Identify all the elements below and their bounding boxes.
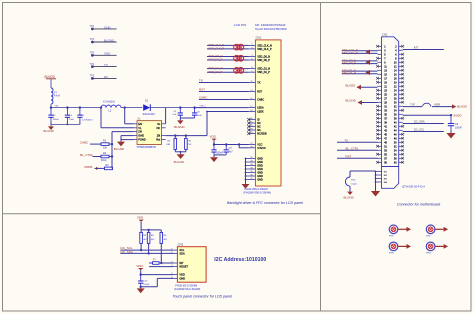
svg-text:600R: 600R <box>435 104 441 106</box>
svg-text:EN: EN <box>138 122 142 126</box>
pin CN2 2 <box>399 45 403 47</box>
svg-text:INT: INT <box>179 261 184 265</box>
wire TX CN2 <box>337 141 378 143</box>
pin CN3 5 VDD <box>173 274 177 276</box>
svg-text:3.3VCC: 3.3VCC <box>257 147 266 150</box>
svg-text:VDD: VDD <box>179 273 185 277</box>
pin CN1 37 GND <box>246 179 256 181</box>
pin CN2 56 <box>399 153 403 155</box>
svg-text:Backlight driver & FFC connect: Backlight driver & FFC connector for LCD… <box>227 201 303 205</box>
ground vdd caps <box>213 155 215 157</box>
svg-text:5: 5 <box>251 55 252 57</box>
svg-text:BLGND: BLGND <box>114 147 125 151</box>
svg-text:100nF: 100nF <box>143 284 150 286</box>
wire RST <box>199 91 249 93</box>
svg-text:TX: TX <box>104 63 108 67</box>
mounting hole MH2 <box>426 225 435 234</box>
wire CABC to CN1 <box>199 99 249 101</box>
wire resistor bus vertical <box>111 132 113 169</box>
wire I2C_SCL CN2 <box>403 131 444 133</box>
svg-text:27: 27 <box>250 143 252 145</box>
ground CN2 mount bus <box>371 191 380 197</box>
pin CN1 33 GND <box>246 165 256 167</box>
ground C9 <box>450 130 452 133</box>
svg-text:VDDB: VDDB <box>84 165 92 169</box>
svg-text:TP3: TP3 <box>90 51 95 55</box>
mounting hole MH3 <box>389 242 398 251</box>
pin CN1 35 GND <box>246 172 256 174</box>
svg-text:13: 13 <box>250 90 252 92</box>
ground ESD <box>347 192 353 195</box>
wire diff pair SSD_D1_N <box>207 68 249 70</box>
pin CN2 19 <box>378 81 382 83</box>
svg-text:3: 3 <box>171 262 172 264</box>
svg-text:CN3: CN3 <box>178 243 184 247</box>
svg-text:Touch:FRCON/TRC509: Touch:FRCON/TRC509 <box>255 27 287 31</box>
port arrow MH3 <box>398 245 407 247</box>
wire CN2 SSD_D0_P <box>342 63 378 65</box>
svg-text:6: 6 <box>171 277 172 279</box>
wire CN2 SSD_D1_P <box>342 73 378 75</box>
svg-text:TP4: TP4 <box>90 62 95 66</box>
pin CN2 38 <box>399 117 403 119</box>
svg-text:4: 4 <box>171 265 172 267</box>
svg-text:MH3: MH3 <box>389 253 394 255</box>
svg-text:ZN: ZN <box>138 130 142 134</box>
pin CN1 27 VCC <box>249 144 256 146</box>
pin CN2 11 <box>378 65 382 67</box>
svg-text:23: 23 <box>250 129 252 131</box>
wire LEDK <box>207 111 249 113</box>
svg-text:1: 1 <box>171 249 172 251</box>
resistor R3 <box>105 167 113 170</box>
pin CN1 3 SSD_CLK_P <box>249 48 256 50</box>
wire CN2 SSD_CLK_N <box>342 50 378 52</box>
pin CN2 8 <box>399 57 403 59</box>
wire RST CN2 <box>337 157 378 159</box>
svg-text:VL: VL <box>138 126 142 130</box>
wire CN2 SSD_D0_N <box>342 60 378 62</box>
ground BLGND U1 <box>117 142 125 147</box>
svg-text:SDA: SDA <box>179 252 185 256</box>
pin CN1 8 SSD_D1_N <box>249 68 256 70</box>
svg-text:11: 11 <box>251 81 253 83</box>
wire R5 to SDA <box>148 243 150 253</box>
pin U1 Vo right <box>162 123 166 125</box>
svg-text:RST: RST <box>257 91 262 94</box>
pin CN1 2 SSD_CLK_N <box>249 44 256 46</box>
panel divider horizontal <box>3 213 321 215</box>
pin CN1 32 GND <box>246 161 256 163</box>
svg-text:BLVDD: BLVDD <box>346 83 357 87</box>
panel divider vertical <box>320 3 322 312</box>
svg-text:22: 22 <box>250 125 252 127</box>
pin U1 GND <box>134 135 138 137</box>
pin CN2 53 <box>378 149 382 151</box>
svg-text:VDD: VDD <box>136 264 143 268</box>
svg-text:SS14L404: SS14L404 <box>143 112 156 116</box>
pin CN1 22 NC <box>249 126 256 128</box>
svg-text:Rst: Rst <box>156 138 160 142</box>
resistor R5 4k7 <box>148 230 150 233</box>
pin CN2 23 <box>378 89 382 91</box>
pin CN2 47 <box>378 137 382 139</box>
pin CN2 49 <box>378 141 382 143</box>
pin CN2 M3 <box>376 178 382 180</box>
wire RESET <box>149 266 173 268</box>
capacitor C4 10nF <box>66 108 68 116</box>
pin CN1 13 RST <box>249 91 256 93</box>
wire CN1 GND bus <box>245 159 247 183</box>
svg-text:I2C_SDA: I2C_SDA <box>414 119 425 123</box>
svg-text:35: 35 <box>250 171 252 173</box>
pin CN2 33 <box>378 109 382 111</box>
pin CN1 21 NC <box>249 122 256 124</box>
wire VDD to rail <box>213 141 215 145</box>
pin U1 NC right <box>162 127 166 129</box>
ground touch <box>140 287 142 289</box>
wire VDD rail <box>214 144 249 146</box>
pin CN2 20 <box>399 81 403 83</box>
svg-text:GND: GND <box>179 277 185 281</box>
svg-text:FH26-39S-0.3SHW: FH26-39S-0.3SHW <box>245 187 269 191</box>
wire diff pair SSD_D0_N <box>207 56 249 58</box>
svg-text:TX: TX <box>257 82 261 85</box>
wire ESD to bus <box>349 171 351 177</box>
svg-text:BLGND: BLGND <box>174 125 185 129</box>
pin CN2 22 <box>399 85 403 87</box>
svg-text:5VDD: 5VDD <box>454 113 463 117</box>
no-connect ticks CN2 left <box>376 45 379 164</box>
no-connect ticks CN2 right <box>401 45 404 164</box>
svg-text:21: 21 <box>250 122 252 124</box>
svg-text:BLGND: BLGND <box>344 195 355 199</box>
svg-text:BL_CTRL: BL_CTRL <box>80 153 94 157</box>
svg-text:CABC: CABC <box>80 140 89 144</box>
pin CN1 23 NC <box>249 129 256 131</box>
port arrow diff pair <box>365 49 370 54</box>
pin CN2 27 <box>378 97 382 99</box>
svg-text:SSD_D0_N: SSD_D0_N <box>209 54 223 58</box>
svg-text:TP1: TP1 <box>90 24 95 28</box>
pin CN2 24 <box>399 89 403 91</box>
pin CN1 34 GND <box>246 168 256 170</box>
pin CN2 28 <box>399 97 403 99</box>
wire D1 to output node <box>150 107 207 109</box>
svg-text:31: 31 <box>250 157 252 159</box>
svg-text:I2C Address:1010100: I2C Address:1010100 <box>214 257 266 263</box>
svg-text:NC: NC <box>188 144 192 146</box>
common-mode choke FL1 <box>234 44 240 50</box>
no-connect X mark CN1 <box>247 132 250 135</box>
pin CN2 40 <box>399 121 403 123</box>
port arrow BLVDD out <box>452 104 456 108</box>
svg-text:10pm: 10pm <box>351 183 357 185</box>
pin CN1 18 LEDK <box>249 111 256 113</box>
pin CN2 9 <box>378 61 382 63</box>
pin CN3 6 GND <box>173 277 177 279</box>
pin CN2 29 <box>378 101 382 103</box>
op-amp U1 boost driver IC <box>137 121 162 145</box>
svg-text:SSD_CLK_P: SSD_CLK_P <box>342 51 358 55</box>
ground BLGND feedback <box>180 152 182 154</box>
svg-text:VDD: VDD <box>104 52 111 56</box>
svg-text:10uF: 10uF <box>197 115 203 117</box>
wire INT <box>159 262 173 264</box>
svg-text:MH4: MH4 <box>426 253 431 255</box>
port arrow BLVDD <box>357 85 361 90</box>
svg-text:BLGND: BLGND <box>104 38 115 42</box>
no-connect X mark CN1 <box>247 122 250 125</box>
pin CN2 43 <box>378 129 382 131</box>
pin CN3 3 INT <box>173 262 177 264</box>
mounting hole MH1 <box>389 225 398 234</box>
pin CN2 M4 <box>376 181 382 183</box>
svg-text:TPS61165DBVR: TPS61165DBVR <box>137 145 156 149</box>
svg-text:SSD_D1_N: SSD_D1_N <box>257 68 270 71</box>
wire output cap bottoms <box>180 117 194 119</box>
svg-text:9: 9 <box>251 71 252 73</box>
wire L2 to D1 <box>121 107 142 109</box>
svg-text:3: 3 <box>251 48 252 50</box>
port arrow MH4 <box>435 245 444 247</box>
inductor L2 4.7uH <box>101 105 121 107</box>
svg-text:(FH26W-39S-0.3SHW): (FH26W-39S-0.3SHW) <box>244 191 272 195</box>
wire BLVDD out left part <box>403 106 422 108</box>
pin CN2 36 <box>399 113 403 115</box>
no-connect X mark CN1 <box>247 118 250 121</box>
port arrow VDDB <box>96 167 99 170</box>
pin CN2 46 <box>399 133 403 135</box>
ESD suppressor EK2 <box>345 177 350 186</box>
svg-text:QTH-030-02-F-D-A: QTH-030-02-F-D-A <box>402 184 425 188</box>
svg-text:34: 34 <box>250 168 252 170</box>
pin CN2 41 <box>378 125 382 127</box>
pin CN2 48 <box>399 137 403 139</box>
wire BLVDD to L1 <box>50 79 52 88</box>
svg-text:TP5: TP5 <box>90 74 95 78</box>
wire U1 GND to ground <box>121 135 134 137</box>
wire ESD bottom <box>349 186 351 191</box>
svg-text:PGND: PGND <box>138 138 146 142</box>
common-mode choke FL3 <box>234 68 240 74</box>
svg-text:BLGND: BLGND <box>346 99 357 103</box>
wire BLVDD CN2 <box>357 86 378 88</box>
svg-text:TYP: TYP <box>410 104 415 106</box>
connector CN1 FFC body <box>255 40 281 186</box>
svg-text:15: 15 <box>250 98 252 100</box>
pin CN2 55 <box>378 153 382 155</box>
wire R6 to INT <box>160 243 162 263</box>
svg-text:SSD_CLK_P: SSD_CLK_P <box>209 47 225 51</box>
pin U1 PGND <box>134 139 138 141</box>
svg-text:SSD_D0_P: SSD_D0_P <box>342 61 356 65</box>
pin CN2 16 <box>399 73 403 75</box>
svg-text:28: 28 <box>250 146 252 148</box>
svg-text:BLVDD: BLVDD <box>457 105 468 109</box>
pin CN2 58 <box>399 157 403 159</box>
pin CN2 M2 <box>376 174 382 176</box>
wire BL_CTRL <box>93 156 102 158</box>
pin CN2 3 <box>378 49 382 51</box>
pin CN2 37 <box>378 117 382 119</box>
svg-text:SSD_CLK_N: SSD_CLK_N <box>209 43 225 47</box>
pin CN2 5 <box>378 53 382 55</box>
svg-text:17: 17 <box>250 106 252 108</box>
no-connect X mark CN1 <box>247 125 250 128</box>
wire SW node to U1 pin1 <box>124 108 126 124</box>
wire I2C_SCL <box>120 249 173 251</box>
wire CABC <box>90 143 101 145</box>
svg-text:SSD_D1_P: SSD_D1_P <box>257 71 270 74</box>
pin CN2 51 <box>378 145 382 147</box>
pin CN3 1 SCL <box>173 249 177 251</box>
wire diff pair SSD_CLK_N <box>207 44 249 46</box>
port arrow MH1 <box>398 228 407 230</box>
mounting hole MH4 <box>426 242 435 251</box>
resistor R6 <box>174 136 176 139</box>
svg-text:33: 33 <box>250 164 252 166</box>
ground BLGND input caps <box>50 124 52 126</box>
svg-text:[N/A]: [N/A] <box>101 159 107 162</box>
wire INT CN2 <box>403 49 444 51</box>
pin U1 EN <box>134 123 138 125</box>
svg-text:SSD_D0_P: SSD_D0_P <box>209 58 223 62</box>
svg-text:LCD P/N:: LCD P/N: <box>234 23 247 27</box>
pin CN2 14 <box>399 69 403 71</box>
svg-text:18: 18 <box>250 110 252 112</box>
svg-text:Touch panel connector for LCD: Touch panel connector for LCD panel <box>173 295 233 299</box>
pin CN2 13 <box>378 69 382 71</box>
capacitor C1 4.7uF <box>79 108 81 116</box>
pin CN2 15 <box>378 73 382 75</box>
pin CN2 32 <box>399 105 403 107</box>
inductor L1 <box>51 88 53 104</box>
wire diff pair SSD_CLK_P <box>207 48 249 50</box>
pin CN1 6 SSD_D0_P <box>249 59 256 61</box>
pin CN1 5 SSD_D0_N <box>249 56 256 58</box>
resistor R4 4k7 <box>140 230 142 233</box>
svg-text:GND: GND <box>138 134 144 138</box>
wire I2C_SDA <box>120 252 173 254</box>
svg-text:SSD_D1_N: SSD_D1_N <box>209 66 223 70</box>
capacitor C10 100nF <box>140 275 142 281</box>
svg-text:4.7uH(1A): 4.7uH(1A) <box>103 99 115 103</box>
wire rail to 3.3VCC pin <box>238 145 240 148</box>
pin CN2 M1 <box>376 171 382 173</box>
wire U1 Zlk feedback <box>166 135 207 137</box>
port arrow BLGND <box>358 100 362 105</box>
svg-text:I2C_SCL: I2C_SCL <box>414 127 425 131</box>
wire CN2 SSD_CLK_P <box>342 52 378 54</box>
wire input to U1 VL <box>100 106 102 108</box>
resistor R7 <box>185 136 187 139</box>
pin CN2 4 <box>399 49 403 51</box>
pin CN2 35 <box>378 113 382 115</box>
no-connect X mark CN1 <box>247 129 250 132</box>
wire diff pair SSD_D0_P <box>207 59 249 61</box>
wire diff pair SSD_D1_P <box>207 71 249 73</box>
pin CN1 15 CABC <box>249 99 256 101</box>
svg-text:FH26-6S-0.3SHW: FH26-6S-0.3SHW <box>175 284 197 288</box>
wire BL_CTRL CN2 <box>337 149 378 151</box>
svg-text:NC: NC <box>156 126 160 130</box>
connector CN2 body <box>382 37 399 189</box>
svg-text:8: 8 <box>251 67 252 69</box>
svg-text:47uH: 47uH <box>54 94 60 97</box>
wire pullup rail <box>141 229 161 231</box>
svg-text:RX: RX <box>104 75 108 79</box>
pin CN1 9 SSD_D1_P <box>249 71 256 73</box>
wire cap bottom rail <box>50 122 52 125</box>
pin CN1 20 ID <box>249 119 256 121</box>
pin CN2 25 <box>378 93 382 95</box>
svg-text:GND: GND <box>257 179 263 182</box>
svg-text:5: 5 <box>171 273 172 275</box>
wire L1 to input rail <box>50 104 52 108</box>
svg-text:(FH26W-6S-0.3SHW): (FH26W-6S-0.3SHW) <box>174 287 200 291</box>
pin CN1 24 NC/SDB <box>249 133 256 135</box>
common-mode choke FL2 <box>234 55 240 61</box>
wire CN2 SSD_D1_N <box>342 70 378 72</box>
wire U1 ZN to resistor bus <box>112 131 134 133</box>
wire R2 to bus <box>109 156 112 158</box>
wire R4 to SCL <box>140 243 142 250</box>
wire BLGND CN2 <box>358 102 378 104</box>
pin U1 Rst right <box>162 139 166 141</box>
svg-text:2: 2 <box>171 252 172 254</box>
svg-text:24: 24 <box>250 132 252 134</box>
svg-text:6: 6 <box>251 59 252 61</box>
node input rail junctions <box>50 106 52 108</box>
svg-text:TP2: TP2 <box>90 37 95 41</box>
pin CN2 39 <box>378 121 382 123</box>
resistor R2 <box>101 155 109 158</box>
svg-text:MH2: MH2 <box>426 236 431 238</box>
pin U1 VL <box>134 127 138 129</box>
svg-text:100nF: 100nF <box>53 119 60 121</box>
resistor R6 pullup 4k7 <box>160 230 162 233</box>
svg-text:10nF: 10nF <box>69 119 75 121</box>
capacitor C9 <box>450 115 452 123</box>
svg-text:VDD: VDD <box>210 135 217 139</box>
svg-text:1uF: 1uF <box>172 114 176 116</box>
svg-text:D1: D1 <box>145 98 149 102</box>
svg-text:37: 37 <box>250 178 252 180</box>
pin CN2 7 <box>378 57 382 59</box>
pin CN1 17 LEDA <box>249 107 256 109</box>
pin CN1 36 GND <box>246 175 256 177</box>
pin CN2 31 <box>378 105 382 107</box>
pin CN3 2 SDA <box>173 252 177 254</box>
pin CN2 42 <box>399 125 403 127</box>
pin CN2 6 <box>399 53 403 55</box>
port arrow diff pair <box>365 70 370 75</box>
svg-text:BLGND: BLGND <box>44 129 55 133</box>
capacitor C7 4.7uF <box>225 145 227 150</box>
pin CN2 17 <box>378 77 382 79</box>
pin CN2 12 <box>399 65 403 67</box>
svg-text:4.7uF(50V): 4.7uF(50V) <box>82 119 93 121</box>
connector CN2 inner divider <box>382 166 399 168</box>
wire I2C_SDA CN2 <box>403 123 444 125</box>
pin CN2 18 <box>399 77 403 79</box>
pin CN3 4 RESET <box>173 266 177 268</box>
port arrow MH2 <box>435 228 444 230</box>
diode D1 <box>143 104 150 111</box>
svg-text:BLGND: BLGND <box>174 160 185 164</box>
pin CN2 57 <box>378 157 382 159</box>
